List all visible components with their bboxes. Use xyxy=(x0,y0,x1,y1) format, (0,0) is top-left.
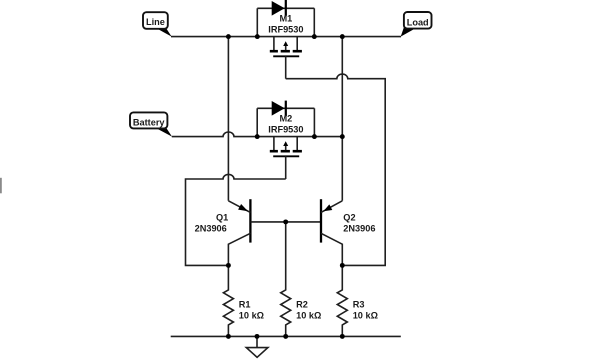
svg-text:M2: M2 xyxy=(280,114,293,124)
node Line flag xyxy=(143,12,172,36)
M1 drain stub xyxy=(273,37,275,51)
svg-text:IRF9530: IRF9530 xyxy=(268,25,303,35)
junction dots xyxy=(226,34,345,339)
wire right vertical from top wire to Q2 emitter xyxy=(341,37,343,201)
resistor R2 xyxy=(281,222,291,337)
pmos M1 xyxy=(270,0,302,79)
svg-text:Battery: Battery xyxy=(133,117,166,127)
M2 source stub xyxy=(296,137,298,151)
pnp Q2 xyxy=(321,199,342,265)
wire ground rail xyxy=(171,335,401,337)
node Load flag xyxy=(401,12,432,37)
node M1 diode right xyxy=(312,34,317,39)
node top wire / right vertical xyxy=(340,34,345,39)
node R3 bottom xyxy=(340,334,345,339)
wire M2 body diode loop right xyxy=(313,108,315,136)
svg-text:M1: M1 xyxy=(280,14,293,24)
Q2 collector diagonal xyxy=(321,233,342,265)
Q1 emitter arrow xyxy=(238,204,248,211)
node R2 bottom xyxy=(283,334,288,339)
wire M2 body diode loop left xyxy=(256,108,258,136)
node Q2 collector / R3 xyxy=(340,263,345,268)
wire top rail Line-to-Load xyxy=(171,36,401,38)
left edge scrollbar remnant xyxy=(0,178,2,194)
svg-text:R1: R1 xyxy=(239,299,251,309)
wire M2 gate route with hop over left vertical xyxy=(186,174,286,265)
svg-text:R2: R2 xyxy=(296,299,308,309)
wire M1 body diode loop left xyxy=(256,8,258,36)
M1 channel line xyxy=(273,55,299,57)
svg-text:2N3906: 2N3906 xyxy=(195,223,227,233)
node ground junction xyxy=(255,334,260,339)
svg-text:2N3906: 2N3906 xyxy=(343,223,375,233)
svg-text:R3: R3 xyxy=(353,299,365,309)
svg-text:IRF9530: IRF9530 xyxy=(268,125,303,135)
wire battery rail with hop over left vertical xyxy=(172,132,342,137)
pmos M2 xyxy=(270,101,302,179)
svg-text:10 kΩ: 10 kΩ xyxy=(353,311,378,321)
node M2 diode right xyxy=(312,134,317,139)
Q2 emitter arrow xyxy=(323,204,332,211)
node M2 diode left xyxy=(255,134,260,139)
wire left vertical from Line wire to Q1 emitter xyxy=(227,37,229,201)
M2 body arrow xyxy=(285,145,287,150)
Q1 emitter diagonal xyxy=(228,201,250,213)
resistor R1 xyxy=(223,265,233,336)
M2 channel line xyxy=(273,155,299,157)
wire M2 body diode top xyxy=(257,107,314,109)
svg-text:Line: Line xyxy=(146,17,165,27)
Q1 base wire xyxy=(250,221,321,223)
M1 body diode symbol xyxy=(272,1,285,16)
M1 gate drop xyxy=(285,56,287,78)
M1 body arrow xyxy=(285,45,287,50)
wire M1 body diode loop right xyxy=(313,8,315,36)
svg-text:Q1: Q1 xyxy=(216,212,228,222)
svg-text:10 kΩ: 10 kΩ xyxy=(239,311,264,321)
M2 contact bars xyxy=(270,150,278,153)
M1 contact bars xyxy=(270,50,278,53)
node battery / right vertical xyxy=(340,134,345,139)
svg-text:10 kΩ: 10 kΩ xyxy=(296,311,321,321)
resistor R3 xyxy=(337,265,347,336)
node Battery flag xyxy=(130,112,172,136)
svg-text:Load: Load xyxy=(407,17,429,27)
wire M1 body diode top xyxy=(257,7,314,9)
pnp Q1 xyxy=(228,199,321,265)
node top wire / left vertical xyxy=(226,34,231,39)
ground xyxy=(246,336,268,357)
node base junction xyxy=(283,219,288,224)
M1 source stub xyxy=(296,37,298,51)
Q2 base bar xyxy=(320,199,322,242)
M2 gate drop xyxy=(285,156,287,179)
wire M1 gate route with hop over right vertical xyxy=(286,74,386,265)
node M1 diode left xyxy=(255,34,260,39)
M2 drain stub xyxy=(273,137,275,151)
Q1 collector diagonal xyxy=(228,233,250,265)
Q2 emitter diagonal xyxy=(321,201,342,213)
Q1 base bar xyxy=(249,199,251,242)
node Q1 collector / R1 xyxy=(226,263,231,268)
svg-text:Q2: Q2 xyxy=(343,212,355,222)
node R1 bottom xyxy=(226,334,231,339)
M2 body diode symbol xyxy=(272,101,285,116)
